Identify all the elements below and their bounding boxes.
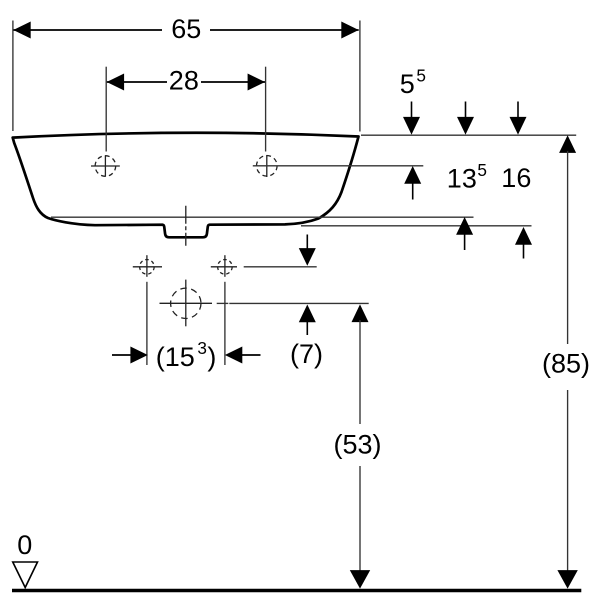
datum triangle bbox=[13, 562, 38, 588]
dim 28 left arrowhead bbox=[107, 74, 124, 91]
dim (85) top arrowhead bbox=[559, 135, 576, 153]
dim 7 down arrowhead bbox=[299, 248, 316, 266]
tap hole left dashed circle bbox=[95, 156, 116, 177]
dim (15_3) right arrowhead bbox=[225, 347, 242, 364]
dim 65 left extension line bbox=[12, 21, 14, 132]
dim 28 left extension line bbox=[105, 67, 107, 152]
dim 7 up arrow shaft bbox=[306, 320, 308, 335]
fixing hole left dashed circle bbox=[140, 260, 155, 275]
svg-text:55: 55 bbox=[400, 65, 426, 99]
dim 13_5 down arrowhead bbox=[457, 117, 474, 135]
dim 65 dimension line bbox=[13, 29, 358, 31]
drain hole cross bbox=[160, 280, 213, 327]
dim 65 left arrowhead bbox=[13, 22, 30, 39]
tap hole right dashed circle bbox=[257, 156, 278, 177]
fixing hole left cross bbox=[133, 255, 162, 277]
fixing hole right cross bbox=[211, 255, 237, 277]
svg-text:(153): (153) bbox=[156, 338, 217, 372]
tap hole left cross bbox=[91, 155, 120, 176]
dim 16 up arrow shaft bbox=[523, 243, 525, 259]
dim 28 dimension line bbox=[107, 81, 265, 83]
dim 7 up arrowhead bbox=[299, 305, 316, 323]
fixing hole left extension line bbox=[146, 282, 148, 365]
svg-text:65: 65 bbox=[171, 14, 201, 44]
dim (85) bottom arrowhead bbox=[557, 570, 577, 589]
fixing hole right dashed circle bbox=[218, 260, 233, 275]
svg-text:(7): (7) bbox=[290, 339, 323, 369]
tap hole level line bbox=[253, 165, 423, 167]
dim (53) bottom arrowhead bbox=[350, 570, 370, 589]
svg-text:(53): (53) bbox=[334, 429, 382, 459]
dim 13_5 up arrow shaft bbox=[464, 233, 466, 251]
dim 16 up arrowhead bbox=[515, 227, 532, 245]
center line bbox=[185, 206, 187, 246]
svg-text:16: 16 bbox=[501, 163, 531, 193]
washbasin outline bbox=[13, 133, 359, 238]
fixing hole level line bbox=[244, 266, 317, 268]
dim (15_3) left arrowhead bbox=[130, 347, 147, 364]
drain level line bbox=[217, 302, 369, 304]
svg-text:(85): (85) bbox=[542, 348, 590, 378]
dim 65 right extension line bbox=[359, 21, 361, 132]
dim 5_5 down arrow shaft bbox=[411, 102, 413, 120]
dim (15_3) dimension line left bbox=[112, 354, 132, 356]
basin side bottom level line bbox=[51, 216, 474, 218]
rim level line bbox=[361, 134, 576, 136]
basin lowest level line bbox=[301, 225, 532, 227]
svg-text:135: 135 bbox=[447, 160, 487, 194]
dim 5_5 down arrowhead bbox=[403, 117, 420, 135]
dim (53) vertical line bbox=[359, 320, 361, 572]
dim 16 down arrow shaft bbox=[517, 102, 519, 120]
dim 28 right extension line bbox=[265, 67, 267, 152]
svg-text:28: 28 bbox=[169, 66, 199, 96]
dim (15_3) dimension line right bbox=[240, 354, 260, 356]
floor line bbox=[12, 589, 581, 593]
tap hole right cross vertical bbox=[266, 155, 268, 177]
dim 5_5 up arrowhead bbox=[404, 166, 421, 184]
dim (85) vertical line bbox=[567, 151, 569, 572]
dim (53) top arrowhead bbox=[352, 304, 369, 322]
svg-text:0: 0 bbox=[17, 530, 32, 560]
dim 13_5 up arrowhead bbox=[456, 217, 473, 235]
fixing hole right extension line bbox=[224, 282, 226, 365]
dim 16 down arrowhead bbox=[510, 117, 527, 135]
dim 65 right arrowhead bbox=[341, 22, 358, 39]
dim 28 right arrowhead bbox=[248, 74, 265, 91]
dim 5_5 up arrow shaft bbox=[412, 182, 414, 200]
dim 7 down arrow shaft bbox=[306, 235, 308, 251]
drain hole dashed circle bbox=[171, 288, 201, 318]
dim 13_5 down arrow shaft bbox=[465, 102, 467, 120]
